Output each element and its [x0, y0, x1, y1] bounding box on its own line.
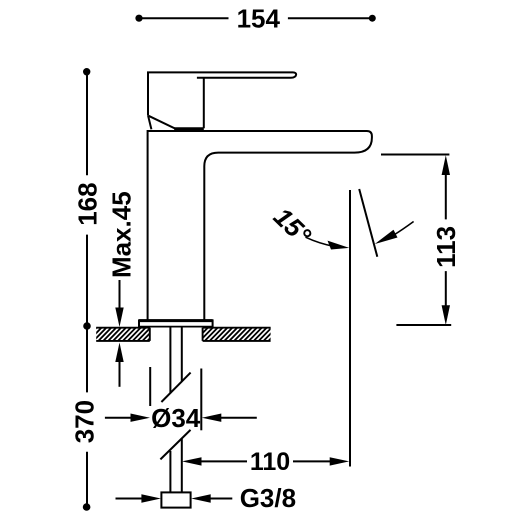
curved arrow shaft right: [393, 222, 414, 236]
left arrow shaft: [116, 498, 144, 500]
countertop right hatched section: [184, 326, 288, 342]
tick top (spout outlet level): [381, 154, 449, 156]
handle base tilted left edge: [148, 115, 151, 129]
dot right: [369, 15, 376, 22]
handle stem right edge: [203, 78, 205, 129]
right arrowhead pointing left: [191, 494, 211, 502]
shank right line upper: [181, 327, 183, 381]
G3/8 fitting rectangle: [161, 492, 190, 507]
arrowhead up: [115, 343, 123, 363]
tick bottom (counter level): [396, 324, 451, 326]
svg-text:154: 154: [237, 3, 281, 33]
curved arrow shaft left: [306, 237, 335, 246]
shank left line upper: [169, 327, 171, 394]
wire: [139, 17, 372, 19]
extension line right: [200, 369, 202, 431]
handle base chamfer: [149, 116, 176, 129]
right arrowhead pointing right: [330, 457, 350, 465]
handle lever: [148, 72, 296, 115]
left arrowhead pointing left: [182, 457, 202, 465]
base plate bottom edge: [139, 326, 213, 328]
body and spout outline: [148, 131, 372, 320]
upper leader line: [119, 280, 121, 309]
arrowhead toward slanted line: [375, 230, 398, 244]
wire: [200, 460, 332, 462]
arrowhead up: [442, 155, 450, 175]
dot left: [135, 15, 142, 22]
lower leader line: [119, 360, 121, 387]
svg-text:Max.45: Max.45: [107, 191, 137, 278]
wire: [445, 173, 447, 307]
left arrowhead pointing right: [131, 414, 151, 422]
left arrow shaft: [105, 417, 133, 419]
right arrow shaft: [209, 498, 232, 500]
shank left line lower: [169, 451, 171, 493]
handle seat thick bar: [174, 127, 204, 130]
svg-text:113: 113: [431, 226, 461, 268]
dot top: [83, 68, 90, 75]
dot bottom (shared with 370): [83, 322, 91, 330]
svg-text:370: 370: [70, 400, 100, 443]
svg-text:168: 168: [73, 182, 103, 225]
base plate thick top edge: [139, 319, 213, 322]
shank break slash lower: [160, 430, 190, 460]
arrowhead toward vertical line: [328, 241, 350, 250]
svg-text:110: 110: [250, 448, 290, 476]
wire: [86, 326, 88, 507]
svg-text:Ø34: Ø34: [151, 403, 201, 433]
extension line left: [149, 367, 151, 406]
left arrowhead pointing right: [141, 494, 161, 502]
right arrow shaft: [220, 417, 257, 419]
arrowhead down: [115, 308, 123, 328]
countertop left hatched section: [78, 326, 167, 342]
vertical reference line: [349, 190, 351, 467]
wire: [86, 72, 88, 326]
shank right line lower: [181, 438, 183, 492]
base plate: [139, 320, 213, 327]
shank break slash upper: [161, 373, 190, 402]
slanted stream line (15 deg): [359, 189, 377, 257]
dot bottom: [83, 503, 91, 511]
svg-text:G3/8: G3/8: [240, 483, 296, 513]
arrowhead down: [442, 305, 450, 325]
right arrowhead pointing left: [202, 414, 222, 422]
